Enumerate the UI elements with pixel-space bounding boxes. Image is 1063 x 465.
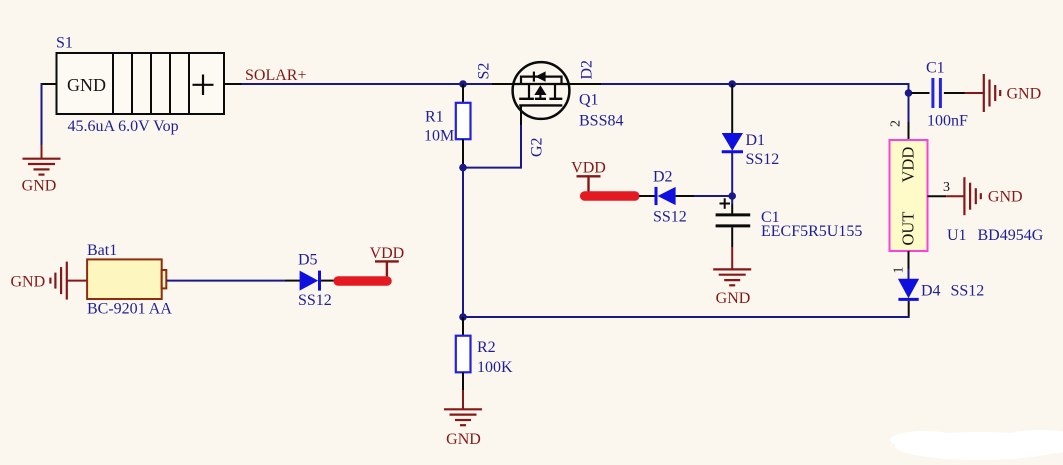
ground symbol S1: [23, 159, 61, 175]
svg-text:2: 2: [889, 120, 904, 127]
op-amp U1 BD4954G body: [890, 140, 928, 251]
wire D5 cathode stub: [321, 280, 334, 282]
resistor R1: [456, 103, 471, 139]
ground symbol battery (rotated mirrored): [50, 262, 66, 300]
svg-text:C1: C1: [926, 60, 945, 77]
wire junction to R2: [462, 317, 464, 336]
wire black stub at MOSFET source: [492, 83, 513, 85]
svg-text:BSS84: BSS84: [579, 113, 623, 130]
svg-text:U1: U1: [947, 227, 967, 244]
capacitor C1 EECF5R5U155 plates: [716, 213, 751, 216]
ground stem S1: [41, 145, 43, 159]
svg-text:D4: D4: [921, 283, 941, 300]
svg-text:GND: GND: [716, 290, 751, 307]
wire SOLAR+ to MOSFET source: [242, 83, 493, 85]
svg-text:VDD: VDD: [370, 245, 405, 262]
wire black stub to D5: [285, 280, 300, 282]
wire gate vertical: [520, 125, 522, 169]
diode D5 SS12: [300, 271, 319, 291]
node junction C1/D2: [728, 192, 736, 200]
svg-text:GND: GND: [1007, 86, 1042, 103]
svg-text:45.6uA 6.0V Vop: 45.6uA 6.0V Vop: [68, 118, 179, 135]
wire drain to top right corner: [601, 83, 909, 85]
wire R2 bottom: [462, 372, 464, 390]
node junction top right: [905, 89, 913, 97]
wire D2 anode black stub: [676, 195, 694, 197]
wire battery to D5: [167, 280, 285, 282]
svg-text:G2: G2: [529, 137, 546, 157]
wire S1 left down to ground: [41, 83, 43, 145]
svg-text:SS12: SS12: [746, 151, 780, 168]
wire 100nF to ground: [944, 92, 965, 94]
wire bottom horizontal: [463, 316, 910, 318]
resistor R2: [456, 336, 471, 373]
wire gate horizontal: [463, 167, 521, 169]
svg-text:10M: 10M: [424, 128, 454, 145]
wire R1 bottom: [462, 139, 464, 167]
ground stem R2: [462, 390, 464, 409]
ground stem battery: [67, 280, 87, 282]
wire gate black stub: [520, 105, 522, 125]
capacitor C1 100nF plates: [931, 78, 934, 108]
wire U1 pin 3: [928, 195, 947, 197]
wire drain black stub: [569, 83, 601, 85]
watermark blob bottom right: [890, 430, 1063, 460]
diode D1 SS12: [722, 133, 743, 151]
node junction R2 top: [459, 313, 467, 321]
svg-text:D2: D2: [579, 60, 596, 80]
svg-text:BD4954G: BD4954G: [978, 227, 1044, 244]
diode D4 SS12: [898, 279, 919, 299]
ground stem C1: [731, 247, 733, 269]
transistor Q1 BSS84: [513, 62, 570, 119]
ground stem 100nF: [965, 92, 984, 94]
wire corner down to junction: [908, 83, 910, 93]
svg-text:GND: GND: [988, 189, 1023, 206]
wire R1 node down to R2 node: [462, 168, 464, 317]
VDD red bus wire: [585, 191, 635, 201]
svg-text:Q1: Q1: [579, 92, 599, 109]
ground symbol R2: [444, 409, 482, 425]
svg-text:100nF: 100nF: [927, 113, 968, 130]
svg-text:R1: R1: [425, 109, 444, 126]
svg-text:D2: D2: [653, 169, 673, 186]
svg-text:GND: GND: [11, 274, 46, 291]
wire junction down to C1: [731, 196, 733, 204]
wire S1 left pin stub: [42, 83, 57, 85]
svg-text:D1: D1: [746, 132, 766, 149]
wire D2 to junction: [694, 195, 732, 197]
wire junction to D1: [731, 84, 733, 134]
svg-text:Bat1: Bat1: [87, 242, 117, 259]
svg-text:3: 3: [943, 180, 950, 195]
node junction D1 top: [728, 80, 736, 88]
capacitor C1 polarized plus sign: [720, 198, 731, 209]
node junction R1 top: [459, 80, 467, 88]
node junction R1 bottom / gate: [459, 164, 467, 172]
svg-text:S2: S2: [476, 63, 493, 80]
svg-text:SOLAR+: SOLAR+: [245, 67, 306, 84]
wire junction down to U1 pin 2: [908, 93, 910, 122]
wire D1 bottom to junction: [731, 153, 733, 196]
svg-text:SS12: SS12: [951, 283, 985, 300]
wire junction to R1: [462, 84, 464, 103]
svg-text:VDD: VDD: [571, 160, 606, 177]
ground stem pin 3: [946, 195, 964, 197]
wire C1 bottom: [731, 227, 733, 247]
wire bus to D2 cathode: [639, 195, 656, 197]
wire U1 pin 1 down: [908, 251, 910, 269]
ground symbol 100nF (rotated): [984, 74, 1000, 112]
svg-text:VDD: VDD: [899, 147, 918, 183]
svg-text:GND: GND: [446, 431, 481, 448]
svg-text:1: 1: [892, 267, 907, 274]
wire S1 right pin stub: [224, 83, 242, 85]
wire D4 bottom black stub: [908, 301, 910, 316]
solar cell S1: [57, 53, 225, 114]
ground symbol C1: [713, 269, 751, 285]
power port VDD near D5: [370, 245, 405, 277]
diode D2 SS12: [655, 187, 658, 205]
svg-text:S1: S1: [56, 35, 73, 52]
svg-text:R2: R2: [477, 339, 496, 356]
wire junction to 100nF cap: [912, 92, 930, 94]
svg-text:SS12: SS12: [298, 292, 332, 309]
svg-text:SS12: SS12: [653, 209, 687, 226]
svg-text:OUT: OUT: [899, 212, 918, 246]
ground symbol pin 3 (rotated): [964, 177, 980, 215]
svg-text:100K: 100K: [477, 359, 513, 376]
svg-text:D5: D5: [298, 252, 318, 269]
svg-text:EECF5R5U155: EECF5R5U155: [761, 223, 862, 240]
VDD red bus wire battery: [338, 276, 387, 286]
svg-text:BC-9201 AA: BC-9201 AA: [87, 301, 172, 318]
power port VDD near D2: [571, 160, 606, 192]
battery Bat1: [87, 259, 166, 299]
svg-text:GND: GND: [67, 75, 106, 95]
svg-text:GND: GND: [22, 178, 57, 195]
